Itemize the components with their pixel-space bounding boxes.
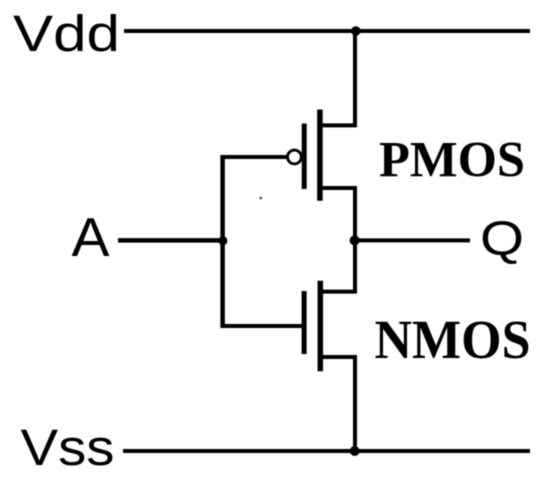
svg-text:Vss: Vss (21, 419, 115, 476)
wire NMOS drain stub (320, 290, 357, 294)
wire PMOS gate (223, 155, 288, 159)
transistor Q1 PMOS gate bubble (288, 150, 302, 164)
transistor Q2 NMOS channel bar (318, 281, 324, 371)
svg-text:PMOS: PMOS (379, 133, 525, 189)
wire PMOS drain stub (320, 186, 357, 190)
wire output Q (355, 238, 470, 242)
wire output vertical PMOS drain to NMOS drain (353, 188, 357, 292)
wire Vdd top rail (124, 29, 530, 33)
junction dot Vss rail (350, 446, 360, 456)
wire Vdd rail to PMOS source (353, 31, 357, 125)
wire Vss bottom rail (123, 449, 530, 453)
transistor Q2 NMOS gate bar (302, 291, 307, 354)
svg-text:Q: Q (480, 213, 524, 266)
wire NMOS gate (221, 324, 307, 328)
wire input A (118, 238, 223, 243)
svg-text:NMOS: NMOS (375, 309, 531, 370)
wire PMOS source stub (320, 123, 357, 127)
transistor Q1 PMOS gate bar (302, 124, 307, 190)
junction dot input node (218, 236, 227, 245)
wire gate vertical between PMOS and NMOS gates (220, 155, 225, 328)
svg-text:Vdd: Vdd (13, 5, 120, 62)
speck artifact (260, 197, 263, 199)
transistor Q1 PMOS channel bar (317, 110, 323, 201)
wire NMOS source stub (320, 355, 357, 359)
wire NMOS source to Vss rail (353, 357, 357, 451)
junction dot output node (350, 235, 360, 245)
svg-text:A: A (72, 206, 110, 268)
junction dot Vdd rail (351, 26, 361, 36)
